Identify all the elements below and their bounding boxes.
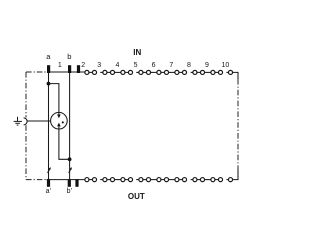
wire OUT pair8 link: [197, 179, 200, 181]
wire IN pair9 link: [215, 71, 218, 73]
svg-text:1: 1: [58, 62, 62, 69]
terminal bar a: [47, 65, 50, 73]
wire IN pair8 link: [197, 71, 200, 73]
contact circles IN row: [85, 70, 233, 74]
wire branch a to arrester: [49, 84, 59, 115]
terminal bar b: [68, 65, 71, 73]
wire IN pair3-pair4: [115, 71, 121, 73]
wire OUT pair6-pair7: [169, 179, 175, 181]
wire OUT stub before pair3: [100, 179, 102, 181]
wire IN stub before pair3: [100, 71, 102, 73]
svg-text:IN: IN: [133, 48, 141, 57]
wire IN pair3 link: [107, 71, 110, 73]
module boundary dash-dot bottom-left: [26, 179, 47, 181]
svg-text:OUT: OUT: [128, 192, 145, 201]
module boundary dash-dot left upper: [25, 72, 27, 117]
wire OUT pair8-pair9: [205, 179, 211, 181]
svg-text:4: 4: [115, 62, 119, 69]
wire OUT pair6 link: [161, 179, 164, 181]
terminal bar 2 IN: [77, 65, 80, 73]
svg-text:2: 2: [81, 62, 85, 69]
wire OUT stub before 10: [226, 179, 228, 181]
wire OUT pair3 link: [107, 179, 110, 181]
ground: [14, 117, 22, 125]
wire OUT pair7 link: [179, 179, 182, 181]
wire IN row rail: [47, 71, 85, 73]
disconnect point on a: [48, 167, 51, 173]
svg-text:b: b: [67, 52, 71, 61]
wire line b vertical: [69, 73, 71, 179]
wire IN pair2 link: [89, 71, 92, 73]
wire OUT pair5-pair6: [151, 179, 157, 181]
wire OUT stub before pair8: [191, 179, 193, 181]
svg-text:7: 7: [169, 62, 173, 69]
junction on a: [47, 82, 51, 86]
wire OUT row rail: [47, 179, 85, 181]
svg-text:9: 9: [205, 62, 209, 69]
wire OUT pair9 link: [215, 179, 218, 181]
wire line a vertical: [48, 73, 50, 179]
svg-text:10: 10: [222, 62, 230, 69]
module boundary dash-dot left lower: [25, 125, 27, 180]
wire IN end to right boundary: [233, 72, 238, 79]
svg-text:3: 3: [97, 62, 101, 69]
module boundary dash-dot right: [237, 79, 239, 169]
wire OUT pair3-pair4: [115, 179, 121, 181]
wire OUT end from right boundary: [233, 169, 238, 180]
wire OUT pair4 link: [125, 179, 128, 181]
terminal bar 2 OUT: [75, 179, 78, 187]
contact circles OUT row: [85, 178, 233, 182]
wire IN pair5-pair6: [151, 71, 157, 73]
wire IN pair6-pair7: [169, 71, 175, 73]
svg-text:a: a: [46, 52, 51, 61]
svg-text:5: 5: [134, 62, 138, 69]
svg-text:b’: b’: [67, 188, 73, 195]
wire IN stub before pair8: [191, 71, 193, 73]
gas discharge tube F1: [51, 112, 68, 129]
svg-text:8: 8: [187, 62, 191, 69]
plug contact arc at boundary: [24, 118, 28, 125]
wire ground lead: [27, 120, 51, 122]
disconnect point on b: [69, 167, 72, 173]
wire OUT stub before pair5: [136, 179, 138, 181]
module boundary dash-dot top-left: [26, 71, 47, 73]
wire IN pair8-pair9: [205, 71, 211, 73]
svg-text:6: 6: [152, 62, 156, 69]
wire arrester to b: [59, 126, 70, 159]
wire OUT pair2 link: [89, 179, 92, 181]
wire OUT pair5 link: [143, 179, 146, 181]
wire IN pair5 link: [143, 71, 146, 73]
junction on b: [68, 157, 72, 161]
wire IN pair7 link: [179, 71, 182, 73]
wire IN pair6 link: [161, 71, 164, 73]
svg-text:a’: a’: [46, 188, 52, 195]
wire IN stub before pair5: [136, 71, 138, 73]
terminal bar a': [47, 179, 50, 187]
terminal bar b': [68, 179, 71, 187]
wire IN pair4 link: [125, 71, 128, 73]
wire IN stub before 10: [226, 71, 228, 73]
